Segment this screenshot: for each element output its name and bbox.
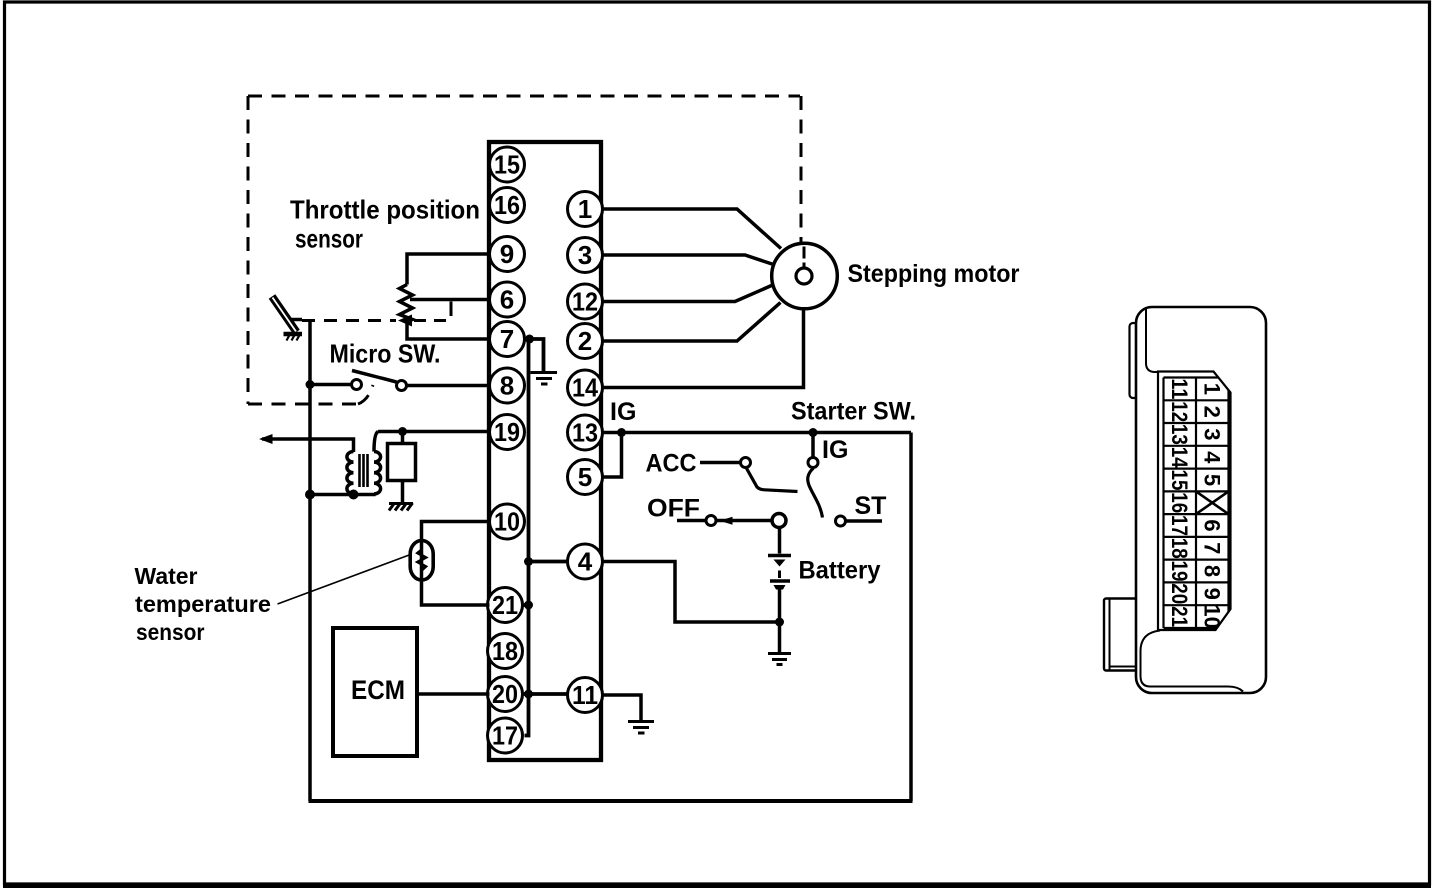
svg-text:3: 3 <box>578 240 592 270</box>
pin 4 <box>568 544 603 579</box>
leader line <box>278 555 411 605</box>
crossed-out cavity X <box>1196 491 1229 514</box>
pin 12 <box>568 284 603 319</box>
connector housing tab (lower left) <box>1104 599 1137 671</box>
ground (battery) <box>768 654 791 665</box>
pin 15 <box>490 147 525 182</box>
junction on bus at pin20 <box>524 690 533 699</box>
svg-text:18: 18 <box>1167 538 1192 559</box>
svg-text:IG: IG <box>822 436 848 464</box>
wire junction to resistor <box>401 432 405 444</box>
svg-text:20: 20 <box>1167 583 1192 604</box>
IG switch arm <box>808 468 823 518</box>
connector housing body <box>1136 307 1266 693</box>
svg-text:14: 14 <box>572 373 598 403</box>
pin 21 <box>488 588 523 623</box>
circuit box right edge <box>909 433 913 802</box>
junction IG switch <box>809 428 818 437</box>
svg-text:temperature: temperature <box>135 591 271 617</box>
svg-text:4: 4 <box>578 547 593 577</box>
svg-text:3: 3 <box>1200 428 1225 440</box>
pin 18 <box>488 634 523 669</box>
junction primary bottom <box>349 490 359 500</box>
wire pin 14 to motor <box>603 306 804 388</box>
wire ECM to pin 20 <box>417 692 490 696</box>
node IG <box>617 428 626 437</box>
pin 7 <box>490 322 525 357</box>
wire pin 1 to motor <box>603 209 782 249</box>
wire with arrow (output lead) <box>262 439 354 452</box>
svg-text:2: 2 <box>578 326 592 356</box>
svg-text:11: 11 <box>1167 378 1192 399</box>
ACC terminal <box>741 458 751 468</box>
resistor (box) <box>388 444 416 481</box>
pin grid <box>1164 378 1231 629</box>
label Throttle position sensor <box>290 195 480 254</box>
throttle lever <box>272 297 302 341</box>
cavity numbers <box>1167 378 1225 628</box>
pin 19 <box>490 415 525 450</box>
pin 9 <box>490 237 525 272</box>
bottom rail wire <box>310 493 376 497</box>
micro switch arm <box>352 371 397 383</box>
throttle position sensor enclosure (dashed) <box>248 96 801 404</box>
svg-text:16: 16 <box>494 190 520 220</box>
common terminal (battery feed) <box>772 514 786 528</box>
wire pin 11 to ground <box>603 695 642 720</box>
wire pin 9 <box>407 254 490 285</box>
svg-text:6: 6 <box>1200 519 1225 531</box>
svg-text:7: 7 <box>1200 542 1225 554</box>
pin 5 <box>568 460 603 495</box>
svg-text:21: 21 <box>492 590 518 620</box>
wire ST lead <box>846 519 882 523</box>
micro switch terminal A <box>352 380 362 390</box>
ignition coil secondary winding <box>374 452 381 494</box>
housing step contour lower <box>1141 631 1244 692</box>
wire to micro switch <box>310 383 351 387</box>
IG terminal <box>808 458 818 468</box>
arrow to OFF <box>720 517 733 525</box>
svg-text:13: 13 <box>1167 424 1192 445</box>
label Water temperature sensor <box>135 563 272 645</box>
svg-text:15: 15 <box>1167 470 1192 491</box>
wire pin 5 riser <box>603 433 622 478</box>
svg-text:12: 12 <box>572 287 598 317</box>
junction on bus at pin4 <box>524 557 533 566</box>
junction bottom rail left <box>305 490 315 500</box>
junction on bus at pin21 <box>524 601 533 610</box>
svg-text:Starter SW.: Starter SW. <box>791 398 916 426</box>
svg-text:Micro SW.: Micro SW. <box>330 339 441 369</box>
main vertical wire <box>308 321 312 802</box>
junction battery negative <box>775 618 784 627</box>
ST terminal <box>836 516 846 526</box>
wire pin 21 stub to bus <box>523 603 529 607</box>
svg-text:1: 1 <box>578 194 592 224</box>
svg-text:21: 21 <box>1167 606 1192 627</box>
housing step contour upper <box>1146 308 1160 373</box>
water temperature sensor (thermistor capsule) <box>410 541 433 581</box>
wire pin 7 <box>407 321 490 339</box>
svg-text:20: 20 <box>492 679 518 709</box>
pin 11 <box>568 678 603 713</box>
wire pin 10 <box>422 522 490 606</box>
connector housing tab (upper left) <box>1130 323 1138 398</box>
svg-text:ST: ST <box>855 492 887 520</box>
svg-text:Throttle position: Throttle position <box>290 195 480 225</box>
wire pin 6 <box>410 298 490 302</box>
svg-text:14: 14 <box>1167 447 1192 469</box>
ECM connector block <box>489 142 601 760</box>
chassis ground <box>389 503 413 511</box>
wire pin 3 to motor <box>603 255 774 265</box>
svg-text:ECM: ECM <box>351 675 405 705</box>
wiper arrow <box>398 315 412 327</box>
wire battery to ground <box>778 622 782 652</box>
junction on bus at pin7 <box>525 335 534 344</box>
svg-text:9: 9 <box>500 239 514 269</box>
OFF terminal <box>706 516 716 526</box>
pin 1 <box>568 192 603 227</box>
pin 17 <box>488 718 523 753</box>
svg-text:10: 10 <box>1200 604 1225 628</box>
stepping motor <box>772 243 838 309</box>
svg-text:16: 16 <box>1167 492 1192 513</box>
dashed mechanical link lever to wiper <box>302 319 396 322</box>
battery <box>768 528 791 623</box>
svg-text:7: 7 <box>500 324 514 354</box>
junction micro switch <box>306 380 315 389</box>
svg-text:ACC: ACC <box>646 450 697 478</box>
ACC switch arm <box>746 467 798 492</box>
micro switch terminal B <box>397 381 407 391</box>
svg-text:IG: IG <box>610 398 636 426</box>
wire internal bus to pin 4 <box>529 560 569 564</box>
pin 16 <box>490 188 525 223</box>
connector face plate <box>1158 372 1231 631</box>
pin 3 <box>568 238 603 273</box>
svg-text:17: 17 <box>1167 515 1192 536</box>
svg-text:9: 9 <box>1200 588 1225 600</box>
ground (pin 7 internal) <box>531 373 558 385</box>
wire OFF to common <box>717 519 773 523</box>
pin 8 <box>490 368 525 403</box>
circuit box bottom edge <box>309 799 913 803</box>
internal bus wire (pins 7-4-21-20-17) <box>525 339 529 736</box>
svg-text:11: 11 <box>572 680 598 710</box>
svg-text:15: 15 <box>494 150 520 180</box>
svg-text:10: 10 <box>494 507 520 537</box>
pin 20 <box>488 677 523 712</box>
svg-text:5: 5 <box>578 462 592 492</box>
wire pin 8 <box>407 384 490 388</box>
junction resistor top <box>398 427 407 436</box>
wire pin 12 to motor <box>603 286 772 302</box>
svg-text:Battery: Battery <box>799 557 881 585</box>
pin 13 <box>568 415 603 450</box>
pin 10 <box>490 504 525 539</box>
svg-text:OFF: OFF <box>647 495 700 523</box>
wire pin 19 <box>378 430 490 434</box>
pin 14 <box>568 370 603 405</box>
dashed wiper to pin 6 wire <box>414 302 451 321</box>
pin 6 <box>490 282 525 317</box>
wire pin 2 to motor <box>603 303 781 342</box>
potentiometer (throttle position sensor) <box>400 285 413 322</box>
svg-text:8: 8 <box>500 371 514 401</box>
wire to IG terminal <box>811 433 815 458</box>
wire pin 4 to battery <box>603 562 780 623</box>
svg-text:19: 19 <box>494 417 520 447</box>
svg-text:5: 5 <box>1200 474 1225 486</box>
wire pin 20 to pin 11 <box>522 692 569 696</box>
wire resistor to chassis ground <box>401 481 405 503</box>
svg-text:1: 1 <box>1200 383 1225 395</box>
ignition coil primary winding <box>347 452 354 494</box>
svg-text:6: 6 <box>500 285 514 315</box>
ignition coil core <box>360 454 368 487</box>
wire pin 13 / IG bus <box>603 431 912 435</box>
svg-text:17: 17 <box>492 721 518 751</box>
svg-text:8: 8 <box>1200 565 1225 577</box>
ground (pin 11) <box>628 722 654 734</box>
svg-text:13: 13 <box>572 418 598 448</box>
svg-text:Stepping motor: Stepping motor <box>848 260 1020 288</box>
pin 2 <box>568 324 603 359</box>
svg-text:2: 2 <box>1200 406 1225 418</box>
svg-text:18: 18 <box>492 636 518 666</box>
svg-text:Water: Water <box>135 563 198 589</box>
svg-text:sensor: sensor <box>136 619 205 645</box>
ECM box <box>333 628 417 756</box>
wire pin7 to internal ground <box>524 339 544 371</box>
svg-text:sensor: sensor <box>295 224 363 254</box>
svg-text:4: 4 <box>1200 451 1225 464</box>
svg-text:19: 19 <box>1167 561 1192 582</box>
wire ACC lead <box>700 461 740 465</box>
wire OFF lead left <box>677 519 706 523</box>
svg-text:12: 12 <box>1167 401 1192 422</box>
